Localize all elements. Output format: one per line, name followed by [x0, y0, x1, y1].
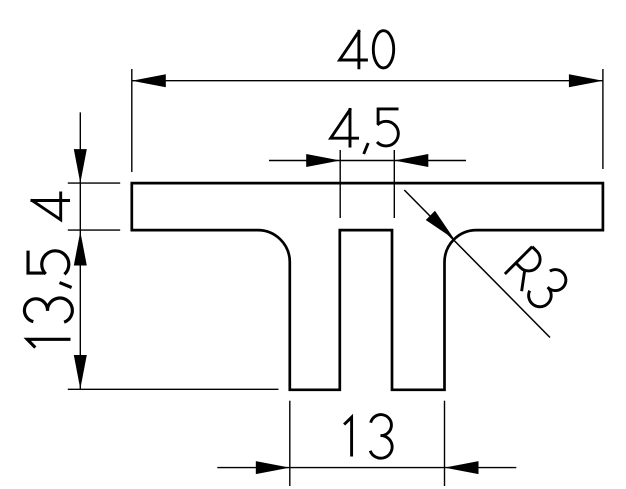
- extension line y=230.1: [68, 229, 120, 231]
- extension line right x=444.5: [444, 401, 446, 486]
- dimension 13 (stem width, bottom): [217, 401, 516, 486]
- extension line y=183.1: [68, 182, 120, 184]
- arrow right: [569, 74, 603, 87]
- extension line left x=289.8: [289, 401, 291, 486]
- dimension line y=80.7: [132, 80, 603, 82]
- label 13: [344, 415, 392, 459]
- dimension 4 (flange thickness) and 13,5 (stem height), left side: [24, 112, 278, 389]
- arrow left: [132, 74, 166, 87]
- dimension 4,5 (slot width): [269, 108, 466, 218]
- arrow up to flange bottom (tip y=230.1): [74, 232, 87, 266]
- arrow left (outside, pointing right): [256, 461, 290, 474]
- label 40: [340, 30, 394, 70]
- leader arrow at fillet: [426, 211, 459, 244]
- label R3 (rotated 45): [504, 244, 571, 311]
- radius callout R3: [404, 190, 570, 338]
- profile outline: T-slot section: [132, 183, 603, 390]
- arrow down to flange top (outside, above): [74, 149, 87, 183]
- extension line right x=393: [393, 150, 395, 218]
- dimension 40 (top width): [132, 30, 603, 172]
- extension line y=388.5 (stem bottom): [68, 388, 279, 390]
- label 4,5: [331, 108, 399, 154]
- leader line 45deg: [404, 190, 550, 338]
- arrow down to stem bottom (tip y=388.5): [74, 355, 87, 389]
- dimension line y=467.6: [217, 467, 516, 469]
- extension line right x=602.9: [602, 69, 604, 169]
- arrow right (outside, pointing left): [394, 154, 428, 167]
- label 4 (rotated): [31, 192, 71, 220]
- dimension line y=160.5: [269, 160, 466, 162]
- extension line left x=131.8: [131, 69, 133, 172]
- dimension line x=80.3: [79, 112, 81, 389]
- extension line left x=340.2: [339, 150, 341, 218]
- label 13,5 (rotated): [24, 251, 72, 348]
- arrow left (outside, pointing right): [306, 154, 340, 167]
- arrow right (outside, pointing left): [445, 461, 479, 474]
